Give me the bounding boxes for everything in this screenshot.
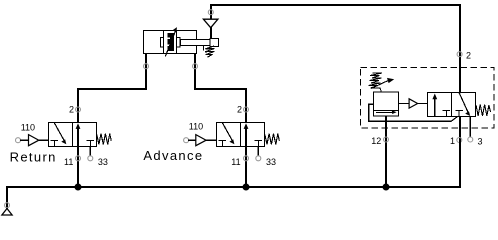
timer enclosure (dashed) [361, 68, 495, 129]
Return pilot port 110 [16, 138, 21, 143]
junction dot at Advance 11 [243, 184, 250, 191]
node Advance port 2 [244, 107, 249, 112]
cylinder body [144, 31, 197, 54]
svg-text:Return: Return [10, 150, 57, 165]
node cylinder left port [144, 64, 149, 69]
node on supply drop [208, 10, 213, 15]
cylinder piston faces [164, 31, 177, 54]
timer valve left box: blocked port T [443, 111, 451, 117]
svg-text:33: 33 [98, 157, 108, 167]
Return port 33 stub [89, 147, 91, 157]
junction dot at timer 12 [383, 184, 390, 191]
bottom supply rail [7, 140, 460, 209]
svg-text:110: 110 [21, 123, 35, 133]
Advance port 33 stub [257, 147, 259, 157]
junction dot at Return 11 [75, 184, 82, 191]
node timer port 3 [468, 137, 473, 142]
node air supply [5, 203, 10, 208]
cylinder cushion adjust arrow [165, 27, 177, 56]
Advance left box: blocked port T [219, 141, 227, 147]
svg-text:110: 110 [189, 122, 203, 132]
timer amplifier triangle [409, 99, 418, 108]
node Return port 11 [76, 156, 81, 161]
wire cylinder left port to Return valve port 2 [78, 54, 146, 123]
node Return port 2 [76, 107, 81, 112]
svg-text:2: 2 [69, 105, 74, 115]
node Advance port 33 [256, 156, 261, 161]
cylinder magnet block [168, 33, 174, 51]
timer throttle zigzag [369, 73, 383, 92]
Advance pilot connector [206, 139, 216, 141]
valve Return 3/2 body [49, 123, 97, 147]
timer amplifier line in [399, 103, 409, 105]
wire top rail from supply drop to timer port 2 [211, 5, 460, 93]
Return right box: blocked port T [87, 141, 95, 147]
timer reservoir [374, 92, 399, 116]
Advance pilot port 110 [184, 138, 189, 143]
Return pilot triangle [29, 135, 39, 146]
timer port 1 wire (valve bottom to rail corner) [459, 117, 461, 141]
wire Advance port 11 to bottom rail [245, 147, 247, 188]
piston rod [181, 40, 211, 46]
timer pilot loop wire [369, 104, 458, 121]
Return spring [97, 133, 112, 144]
timer throttle adjust arrow [371, 78, 394, 89]
timer valve spring [476, 105, 491, 116]
timer valve left box: 1-2 flow arrow [432, 94, 437, 117]
Advance pilot line [188, 139, 196, 141]
svg-text:11: 11 [64, 157, 73, 167]
Advance right box: blocked port T [255, 141, 263, 147]
Return left box: blocked port T [51, 141, 59, 147]
timer valve right box: blocked port T [456, 111, 464, 117]
spring under rod end [204, 46, 215, 58]
node Advance port 11 [244, 156, 249, 161]
Advance right box: 1-2 flow arrow [244, 123, 249, 146]
svg-text:12: 12 [371, 136, 381, 146]
Advance pilot triangle [196, 135, 206, 146]
valve Advance 3/2 body [217, 123, 265, 147]
svg-text:33: 33 [266, 157, 276, 167]
compressed air marker (triangle down) onto rod end [203, 19, 218, 28]
node Return port 33 [88, 156, 93, 161]
wire cylinder right port to Advance valve port 2 [195, 54, 246, 123]
Return right box: 1-2 flow arrow [76, 123, 81, 146]
svg-text:Advance: Advance [143, 148, 203, 163]
timer valve body [428, 93, 476, 117]
Advance spring [265, 133, 280, 144]
wire Return port 11 to bottom rail [77, 147, 79, 188]
node timer port 1 [457, 138, 462, 143]
timer port 12 wire to bottom rail [385, 116, 387, 187]
svg-text:11: 11 [231, 157, 240, 167]
svg-text:1: 1 [450, 136, 455, 146]
cylinder cushion seals [161, 38, 181, 48]
Return pilot connector [39, 139, 49, 141]
timer amplifier line out [418, 103, 428, 105]
air supply triangle [2, 209, 12, 216]
Advance left box: 2-3 path arrow [222, 123, 234, 145]
node timer port 12 [384, 137, 389, 142]
timer port 3 stub [469, 117, 471, 138]
rod end block [210, 39, 218, 47]
node timer port 2 [457, 52, 462, 57]
svg-text:2: 2 [237, 105, 242, 115]
timer valve right box: 2-3 path arrow [459, 93, 470, 116]
svg-text:2: 2 [466, 50, 471, 60]
timer reservoir arrow [376, 110, 397, 114]
svg-text:3: 3 [478, 136, 483, 146]
Return pilot line [20, 139, 28, 141]
node cylinder right port [193, 64, 198, 69]
Return left box: 2-3 path arrow [54, 123, 66, 145]
